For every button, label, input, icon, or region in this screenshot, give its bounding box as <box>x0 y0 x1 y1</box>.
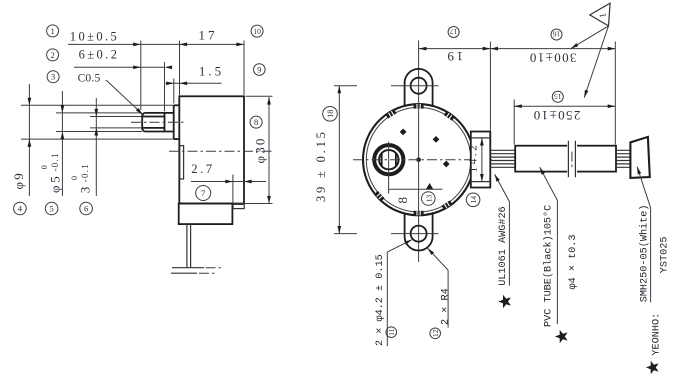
extension line tube left <box>513 100 515 145</box>
svg-text:6: 6 <box>84 204 89 214</box>
crimp tab 303deg <box>441 200 452 209</box>
balloon 5 <box>45 202 58 215</box>
extension line 19 right / 300 left <box>489 42 491 133</box>
8 dimension line <box>389 188 443 190</box>
leader balloon 11 <box>387 240 412 347</box>
svg-text:10: 10 <box>253 27 261 36</box>
top tab <box>405 69 433 107</box>
svg-text:4: 4 <box>18 204 23 214</box>
svg-text:SMH250-05(White): SMH250-05(White) <box>639 204 651 302</box>
phi9 dimension vertical <box>28 84 30 196</box>
svg-text:6±0.2: 6±0.2 <box>79 48 120 62</box>
extension line flat end <box>164 62 166 112</box>
svg-text:16: 16 <box>553 30 561 39</box>
inner seam circle <box>366 107 471 212</box>
8 dim triangle arrow <box>426 183 433 189</box>
shaft phi9 top extension/outline <box>21 104 174 106</box>
shaft boss ring <box>374 145 403 174</box>
svg-text:5: 5 <box>49 204 53 214</box>
text YST025 rotated <box>659 237 670 274</box>
phi5 dimension vertical <box>61 91 63 196</box>
flag note 1 <box>590 3 610 26</box>
extension line body face above <box>179 41 181 96</box>
svg-text:UL1061 AWG#26: UL1061 AWG#26 <box>498 206 509 285</box>
14.2 arrows <box>480 138 484 146</box>
PVC tube <box>515 146 616 172</box>
svg-text:3: 3 <box>78 185 93 193</box>
svg-text:φ5: φ5 <box>48 173 63 193</box>
shaft flats <box>382 153 396 166</box>
balloon 12 rotated <box>430 328 441 339</box>
dimension line 19/300 <box>419 48 616 50</box>
C0.5 leader <box>106 80 142 114</box>
wire pair going down <box>187 224 191 267</box>
block inner top line <box>471 137 490 139</box>
svg-text:φ9: φ9 <box>11 171 26 189</box>
balloon 11 rotated <box>386 327 397 338</box>
connector block <box>471 132 491 188</box>
svg-text:YST025: YST025 <box>659 237 670 274</box>
svg-text:19: 19 <box>445 49 463 64</box>
svg-text:10±0.5: 10±0.5 <box>70 30 119 44</box>
svg-text:3: 3 <box>51 72 55 82</box>
extension line boss face <box>173 79 175 104</box>
center dot <box>416 157 421 162</box>
crimp tab 57deg <box>444 111 455 121</box>
bottom tab hole <box>411 226 427 242</box>
svg-text:-0.1: -0.1 <box>50 152 60 171</box>
balloon 15 rotated180 <box>552 91 563 102</box>
svg-text:17: 17 <box>199 28 218 43</box>
svg-text:17: 17 <box>450 27 458 36</box>
svg-text:15: 15 <box>554 92 562 101</box>
text phi5 with tolerance rotated <box>40 152 63 193</box>
tube break gap <box>567 144 577 173</box>
shaft phi9 bottom extension/outline <box>21 138 174 140</box>
balloon 10 <box>251 25 263 37</box>
39 dimension vertical <box>338 86 340 234</box>
svg-text:14.2: 14.2 <box>467 143 479 173</box>
extension line box rear for 2.7 <box>232 175 234 204</box>
text PVC TUBE rotated <box>542 205 554 327</box>
wire bundle 1 <box>490 150 515 167</box>
svg-text:φ4 × t0.3: φ4 × t0.3 <box>568 234 579 289</box>
tube break edges <box>568 141 575 177</box>
shaft phi5 top extension/outline <box>56 112 142 114</box>
extension line body rear above <box>243 41 245 96</box>
text 3 with tolerance rotated <box>70 163 93 193</box>
svg-text:8: 8 <box>254 117 258 127</box>
top tab hole <box>411 78 427 94</box>
text phi9 rotated <box>11 171 26 189</box>
shaft step at flat end <box>164 113 166 132</box>
text 19 rotated180 <box>445 49 463 64</box>
svg-text:250±10: 250±10 <box>532 108 580 123</box>
leader note PVC <box>540 167 558 324</box>
svg-text:14: 14 <box>469 196 478 204</box>
wire break lines <box>172 267 204 269</box>
crimp tab 270deg bottom <box>414 211 424 216</box>
star 3 <box>646 361 659 374</box>
balloon 17 rotated180 <box>448 27 459 38</box>
balloon 4 <box>14 202 27 215</box>
end connector housing <box>630 137 649 178</box>
shaft phi5 bottom extension/outline <box>56 131 142 133</box>
svg-text:0: 0 <box>70 176 79 180</box>
boss face phi9 <box>173 105 175 139</box>
flag leader 2 <box>584 26 608 98</box>
balloon 2 <box>47 49 59 61</box>
diamond mark B <box>433 136 440 143</box>
horizontal centerline <box>353 159 492 161</box>
leader note UL1061 <box>495 174 510 285</box>
rear bottom lip <box>233 204 244 208</box>
dimension line 250 <box>514 105 615 107</box>
svg-text:300±10: 300±10 <box>528 51 576 66</box>
dimension line 10/17 <box>68 43 244 45</box>
shaft centerline <box>131 121 185 123</box>
balloon 14 rotated <box>466 193 480 207</box>
svg-text:PVC TUBE(Black)105°C: PVC TUBE(Black)105°C <box>542 205 554 327</box>
balloon 13 rotated <box>422 192 436 206</box>
vertical centerline <box>418 41 420 263</box>
tube break centerline <box>571 152 573 168</box>
text 39+-0.15 rotated <box>314 129 328 202</box>
shaft flat top extension/outline <box>90 116 142 118</box>
crimp tab 90deg top <box>414 104 424 109</box>
svg-text:9: 9 <box>257 65 261 75</box>
svg-text:C0.5: C0.5 <box>78 73 101 85</box>
extension line shaft tip <box>140 41 142 111</box>
text 2xphi4.2 rotated <box>375 254 386 346</box>
body circle <box>363 104 474 215</box>
bottom hole centerline <box>334 233 439 235</box>
svg-text:1.5: 1.5 <box>199 64 224 79</box>
svg-text:YEONHO:: YEONHO: <box>651 313 662 356</box>
bottom wire-exit box <box>179 204 233 225</box>
bottom tab <box>405 212 433 250</box>
flag leader 1 <box>571 26 609 49</box>
wire bundle 2 <box>616 150 630 167</box>
front tab bar on body face <box>180 146 184 179</box>
text 2xR4 rotated <box>440 288 451 325</box>
diamond mark C <box>443 161 450 168</box>
svg-text:12: 12 <box>431 329 440 337</box>
text SMH250 rotated <box>639 204 651 302</box>
text 300+-10 rotated180 <box>528 51 576 66</box>
block inner vertical <box>481 138 483 182</box>
block inner bottom line <box>471 181 490 183</box>
balloon 3 <box>47 71 59 83</box>
text UL1061 rotated <box>498 206 509 285</box>
star 2 <box>555 330 568 343</box>
balloon 18 rotated <box>323 107 338 122</box>
text phi30 rotated <box>253 136 268 163</box>
balloon 1 <box>47 25 59 37</box>
balloon 16 rotated180 <box>551 29 562 40</box>
text 14.2 rotated <box>467 143 479 173</box>
svg-text:-0.1: -0.1 <box>80 163 90 182</box>
leader balloon 12 <box>428 248 449 327</box>
shaft flat bottom extension/outline <box>90 127 142 129</box>
shaft tip face with chamfer <box>142 113 144 132</box>
svg-text:φ30: φ30 <box>253 136 268 163</box>
dimension line 6 <box>74 66 165 68</box>
phi30 dimension vertical <box>268 97 270 204</box>
text YEONHO rotated <box>651 313 662 356</box>
svg-text:39 ± 0.15: 39 ± 0.15 <box>314 129 328 202</box>
shaft vertical line <box>388 142 390 194</box>
extension line tube right <box>614 42 616 145</box>
svg-text:8: 8 <box>395 195 410 203</box>
balloon 6 <box>80 202 93 215</box>
leader note YEONHO <box>637 167 651 303</box>
svg-text:13: 13 <box>424 195 433 203</box>
diamond mark A <box>400 129 407 136</box>
shaft circle <box>379 150 398 169</box>
svg-text:2: 2 <box>50 50 54 60</box>
text 250+-10 rotated180 <box>532 108 580 123</box>
flat 3 dimension vertical <box>95 98 97 196</box>
star 1 <box>498 295 511 308</box>
balloon 8 <box>250 116 262 128</box>
text phi4 t0.3 rotated <box>568 234 579 289</box>
crimp tab 237deg <box>374 191 384 201</box>
svg-text:1: 1 <box>50 26 54 36</box>
motor body rectangle <box>179 96 244 203</box>
crimp tab 123deg <box>386 109 397 118</box>
svg-text:18: 18 <box>326 110 335 118</box>
svg-text:2.7: 2.7 <box>191 162 214 176</box>
svg-text:11: 11 <box>387 328 396 335</box>
svg-text:2 × φ4.2 ± 0.15: 2 × φ4.2 ± 0.15 <box>375 254 386 346</box>
body bottom edge extension right <box>234 203 273 205</box>
dimension line 1.5 <box>166 82 222 84</box>
dimension line 2.7 <box>191 181 266 183</box>
body top edge extension right <box>246 95 273 97</box>
svg-text:0: 0 <box>40 165 49 169</box>
balloon 9 <box>253 64 265 76</box>
top hole centerline <box>334 85 439 87</box>
svg-text:7: 7 <box>201 188 206 198</box>
body centerline <box>169 150 273 152</box>
svg-text:2 × R4: 2 × R4 <box>440 288 451 325</box>
text 8 rotated <box>395 195 410 203</box>
balloon 7 <box>196 186 211 201</box>
